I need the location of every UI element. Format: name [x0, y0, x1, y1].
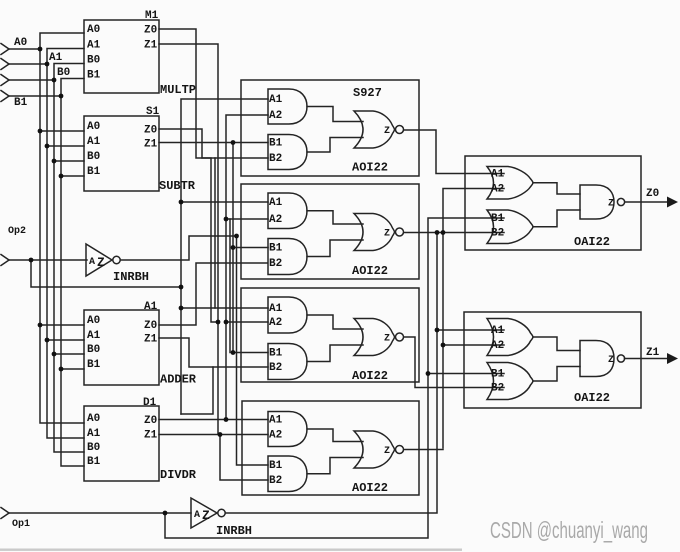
- OAI22 gate 2 box: [464, 312, 641, 408]
- svg-text:S927: S927: [353, 86, 382, 100]
- svg-text:A1: A1: [87, 428, 101, 440]
- AOI22 gate 3 NOR: [354, 319, 395, 356]
- svg-text:INRBH: INRBH: [216, 524, 252, 538]
- wire input B0 row: [9, 79, 54, 81]
- input Op2 connector: [1, 255, 9, 266]
- svg-text:A1: A1: [269, 303, 283, 315]
- wire B1 bus: [61, 79, 84, 467]
- wire AOI22-1 Z net: [404, 130, 504, 174]
- svg-text:A0: A0: [14, 37, 27, 49]
- AOI22 gate 3 box: [241, 288, 419, 382]
- wire inverter U2 output net: [226, 233, 505, 514]
- wire ADDER Z0 net: [159, 263, 267, 325]
- svg-text:OAI22: OAI22: [574, 235, 610, 249]
- svg-text:A1: A1: [491, 169, 505, 181]
- svg-text:Z1: Z1: [144, 334, 158, 346]
- AOI22 gate 1 AND A: [268, 89, 307, 124]
- wire node V220: [220, 435, 268, 481]
- svg-text:B0: B0: [87, 55, 100, 67]
- wire AOI22 gate 4 AND A to NOR: [307, 429, 363, 442]
- svg-text:B1: B1: [269, 138, 283, 150]
- wire node V226: [226, 115, 268, 420]
- AOI22 gate 4 AND A: [268, 412, 307, 447]
- svg-text:B1: B1: [14, 97, 28, 109]
- OAI22 gate 1 OR A: [487, 167, 533, 200]
- svg-text:B2: B2: [269, 475, 282, 487]
- svg-text:AOI22: AOI22: [352, 161, 388, 175]
- wire AOI22 gate 3 AND A to NOR: [307, 315, 363, 329]
- svg-text:A1: A1: [49, 52, 63, 64]
- svg-text:B1: B1: [87, 70, 101, 82]
- wire Op1 direct net: [165, 218, 504, 538]
- svg-text:M1: M1: [145, 10, 159, 22]
- svg-text:DIVDR: DIVDR: [160, 468, 197, 482]
- OAI22 gate 1 box: [465, 156, 641, 250]
- AOI22 gate 2 AND B: [268, 239, 307, 275]
- svg-text:B1: B1: [269, 460, 283, 472]
- input Op1 connector: [1, 508, 9, 519]
- svg-text:S1: S1: [146, 106, 160, 118]
- svg-text:OAI22: OAI22: [574, 391, 610, 405]
- AOI22 gate 2 AND A: [268, 193, 307, 229]
- svg-text:Z: Z: [384, 334, 390, 345]
- wire A1 bus: [47, 49, 84, 439]
- wire OAI22 gate 2 OR B to NAND: [533, 367, 580, 382]
- svg-text:B1: B1: [269, 348, 283, 360]
- wire AOI22-3 Z net: [404, 337, 504, 388]
- svg-text:Z: Z: [97, 255, 105, 270]
- wire A0 bus: [40, 33, 84, 423]
- svg-text:A1: A1: [87, 40, 101, 52]
- wire input A0 row: [9, 48, 40, 50]
- svg-text:B2: B2: [269, 258, 282, 270]
- svg-text:B0: B0: [87, 151, 100, 163]
- wire AOI22-4 Z net: [404, 449, 443, 451]
- svg-text:Z1: Z1: [144, 430, 158, 442]
- wire MULTP Z0 net: [159, 29, 218, 322]
- svg-text:A0: A0: [87, 121, 100, 133]
- svg-text:Z0: Z0: [144, 125, 157, 137]
- svg-text:A0: A0: [87, 413, 100, 425]
- AOI22 gate 2 box: [241, 184, 419, 279]
- svg-text:MULTP: MULTP: [160, 83, 196, 97]
- svg-text:A2: A2: [269, 317, 282, 329]
- svg-text:B2: B2: [491, 383, 504, 395]
- svg-text:A2: A2: [491, 340, 504, 352]
- wire Op2 input row: [9, 259, 87, 261]
- svg-text:Z0: Z0: [144, 320, 157, 332]
- svg-text:A2: A2: [269, 110, 282, 122]
- wire SUBTR Z0 net: [159, 129, 268, 158]
- wire inverter U1 output net: [121, 236, 237, 260]
- svg-text:Z0: Z0: [144, 415, 157, 427]
- OAI22 gate 1 NAND: [580, 185, 614, 219]
- wire AOI22-2 Z net: [404, 232, 504, 234]
- svg-text:AOI22: AOI22: [352, 369, 388, 383]
- wire output Z1 wire: [625, 358, 671, 360]
- wire node V230: [229, 219, 231, 353]
- svg-text:ADDER: ADDER: [160, 373, 197, 387]
- svg-text:CSDN @chuanyi_wang: CSDN @chuanyi_wang: [490, 517, 648, 543]
- svg-text:A1: A1: [87, 330, 101, 342]
- wire SUBTR Z1 net: [159, 142, 268, 144]
- svg-text:B1: B1: [269, 243, 283, 255]
- svg-text:B1: B1: [87, 456, 101, 468]
- svg-text:Z0: Z0: [144, 25, 157, 37]
- svg-text:B1: B1: [491, 369, 505, 381]
- svg-text:A2: A2: [269, 214, 282, 226]
- svg-text:Z1: Z1: [144, 139, 158, 151]
- svg-text:Z1: Z1: [144, 40, 158, 52]
- svg-text:Op2: Op2: [8, 226, 26, 237]
- svg-text:Z: Z: [202, 508, 210, 523]
- svg-text:A: A: [194, 510, 200, 521]
- wire OAI22 gate 1 OR B to NAND: [533, 210, 580, 227]
- adder block A1: [84, 310, 159, 385]
- wire Op1 input row: [9, 512, 191, 514]
- wire OAI22 gate 1 OR A to NAND: [533, 183, 580, 194]
- AOI22 gate 4 box: [242, 401, 419, 495]
- wire input A1 row: [9, 63, 47, 65]
- svg-text:A0: A0: [87, 24, 100, 36]
- svg-text:A2: A2: [491, 184, 504, 196]
- svg-text:Z: Z: [608, 199, 614, 210]
- AOI22 gate 3 AND A: [268, 297, 307, 333]
- svg-text:A1: A1: [269, 197, 283, 209]
- svg-text:B0: B0: [57, 67, 70, 79]
- svg-text:B2: B2: [269, 362, 282, 374]
- svg-text:Z: Z: [384, 229, 390, 240]
- svg-text:B2: B2: [269, 153, 282, 165]
- wire input B1 row: [9, 95, 61, 97]
- svg-text:D1: D1: [143, 397, 157, 409]
- OAI22 gate 2 OR A: [487, 319, 533, 356]
- wire AOI22 gate 1 AND A to NOR: [307, 107, 363, 122]
- wire node V213: [181, 367, 213, 414]
- svg-text:B1: B1: [491, 213, 505, 225]
- output Z1 arrowhead: [667, 353, 678, 364]
- wire node V215: [214, 158, 216, 308]
- svg-text:A2: A2: [269, 430, 282, 442]
- wire MULTP Z1 net: [159, 44, 218, 435]
- OAI22 gate 1 OR B: [487, 210, 533, 244]
- divdr block D1: [84, 406, 159, 481]
- AOI22 gate 1 NOR: [354, 111, 395, 148]
- svg-text:A1: A1: [144, 301, 158, 313]
- AOI22 gate 4 NOR: [354, 431, 395, 468]
- svg-text:INRBH: INRBH: [113, 270, 149, 284]
- subtr block S1: [84, 116, 159, 191]
- input B1 connector: [1, 91, 9, 102]
- OAI22 gate 2 NAND: [580, 341, 614, 377]
- wire node V443: [443, 189, 504, 449]
- svg-text:B0: B0: [87, 344, 100, 356]
- OAI22 gate 2 OR B: [487, 363, 533, 400]
- wire node V234: [233, 143, 268, 353]
- svg-text:A1: A1: [87, 136, 101, 148]
- svg-text:A1: A1: [269, 415, 283, 427]
- svg-text:Z: Z: [384, 446, 390, 457]
- svg-text:Z0: Z0: [646, 188, 659, 200]
- input B0 connector: [1, 75, 9, 86]
- AOI22 gate 1 AND B: [268, 135, 307, 170]
- wire AOI22 gate 1 AND B to NOR: [307, 138, 363, 153]
- svg-text:B1: B1: [87, 166, 101, 178]
- wire node V181: [181, 99, 268, 414]
- multp block M1: [84, 20, 159, 93]
- wire node V236: [237, 236, 269, 465]
- wire AOI22 gate 3 AND B to NOR: [307, 345, 363, 362]
- wire DIVDR Z0 net: [159, 419, 268, 421]
- wire AOI22 gate 2 AND A to NOR: [307, 211, 363, 224]
- wire ADDER Z1 net: [159, 338, 268, 367]
- wire B0 bus: [54, 64, 84, 453]
- svg-text:A0: A0: [87, 315, 100, 327]
- AOI22 gate 1 box: [241, 80, 419, 176]
- svg-text:A1: A1: [491, 325, 505, 337]
- svg-text:SUBTR: SUBTR: [159, 179, 196, 193]
- svg-text:B1: B1: [87, 359, 101, 371]
- wire DIVDR Z1 net: [159, 434, 268, 436]
- svg-text:AOI22: AOI22: [352, 264, 388, 278]
- svg-text:B0: B0: [87, 442, 100, 454]
- wire OAI22 gate 2 OR A to NAND: [533, 337, 580, 351]
- svg-text:AOI22: AOI22: [352, 481, 388, 495]
- svg-text:A1: A1: [269, 94, 283, 106]
- inverter U2 INRBH: [191, 498, 217, 528]
- input A1 connector: [1, 59, 9, 70]
- wire AOI22 gate 2 AND B to NOR: [307, 240, 363, 257]
- svg-text:Z1: Z1: [646, 347, 660, 359]
- wire Op2 direct net: [31, 260, 181, 287]
- svg-text:Z: Z: [608, 355, 614, 366]
- svg-text:B2: B2: [491, 228, 504, 240]
- output Z0 arrowhead: [667, 197, 678, 208]
- wire output Z0 wire: [625, 201, 670, 203]
- inverter U1 INRBH: [86, 244, 112, 276]
- AOI22 gate 2 NOR: [354, 214, 395, 251]
- wire AOI22 gate 4 AND B to NOR: [307, 458, 363, 474]
- svg-text:Op1: Op1: [12, 519, 30, 530]
- svg-text:Z: Z: [384, 126, 390, 137]
- AOI22 gate 3 AND B: [268, 344, 307, 380]
- svg-text:A: A: [89, 257, 95, 268]
- input A0 connector: [1, 44, 9, 55]
- AOI22 gate 4 AND B: [268, 456, 307, 492]
